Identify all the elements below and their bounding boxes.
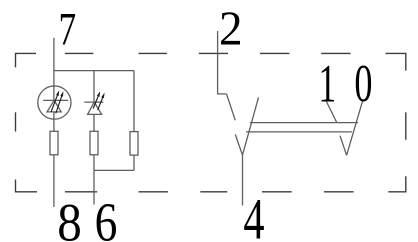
svg-text:6: 6 (95, 191, 118, 242)
actuator bar bottom line (246, 131, 352, 133)
blade fork left prong (235, 135, 242, 156)
terminal label 0 (354, 54, 372, 112)
lamp arrow 2 (56, 94, 63, 113)
enclosure top edge dashes (65, 52, 351, 54)
enclosure top-left corner (16, 53, 37, 67)
moving blade left contact (243, 97, 259, 155)
left section: indicator lamp and LED branches (38, 38, 138, 207)
terminal label 1 (318, 53, 336, 113)
wire terminal 2 (218, 31, 227, 94)
lamp arrow 1 (51, 93, 58, 112)
wire R2 down (93, 155, 95, 171)
enclosure bottom edge dashes (65, 191, 354, 193)
wire to terminal 4 (242, 155, 244, 205)
terminal label 8 (57, 194, 82, 242)
right branch wire from bus (133, 71, 135, 132)
resistor R1 (50, 131, 58, 155)
enclosure left edge dash (15, 112, 17, 131)
resistor R2 (90, 131, 98, 155)
LED VD diode triangle (88, 102, 102, 114)
dashed enclosure outline of switch unit (16, 53, 406, 191)
svg-text:0: 0 (354, 54, 372, 112)
enclosure bottom-right corner (388, 176, 406, 192)
bottom junction wire (94, 169, 134, 171)
wire R3 down (133, 155, 135, 170)
terminal label 4 (243, 187, 264, 242)
wire terminal 7 down to lamp (53, 38, 55, 101)
svg-text:8: 8 (57, 194, 82, 242)
fixed contact lead from 1 (326, 102, 336, 123)
wire lamp to resistor R1 (53, 112, 55, 131)
right section: travel switch SQ changeover contacts (218, 31, 363, 206)
LED VD cathode bar (84, 101, 103, 103)
right blade fork left prong (340, 136, 347, 156)
wire R1 to terminal 8 (53, 155, 55, 207)
enclosure right edge dash (405, 112, 407, 140)
actuator bar top line (250, 122, 358, 124)
lamp HL cathode bar (43, 99, 68, 101)
svg-text:1: 1 (318, 53, 336, 113)
moving blade right contact (347, 101, 363, 155)
terminal label 6 (95, 191, 118, 242)
LED arrow 2 (98, 95, 104, 110)
lamp HL diode triangle (47, 100, 61, 112)
LED arrow 1 (93, 93, 99, 108)
lamp emission arrows (51, 90, 105, 113)
resistor R3 (130, 132, 138, 156)
wire junction to terminal 6 (93, 170, 95, 204)
indicator lamp HL (LED in circle) (38, 86, 71, 119)
enclosure bottom-left corner (16, 180, 38, 192)
enclosure top-right corner (386, 53, 406, 70)
LED branch wire from bus (93, 71, 95, 102)
wire LED to resistor R2 (93, 114, 95, 131)
fixed contact lead from 2 (227, 94, 236, 120)
svg-text:2: 2 (219, 2, 243, 56)
svg-text:4: 4 (243, 187, 264, 242)
svg-text:7: 7 (59, 2, 77, 54)
terminal label 7 (59, 2, 77, 54)
top bus wire (54, 70, 134, 72)
terminal label 2 (219, 2, 243, 56)
